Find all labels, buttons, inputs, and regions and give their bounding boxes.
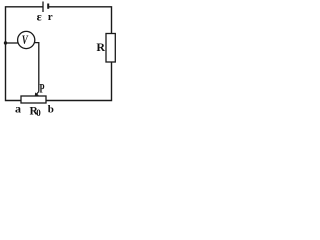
svg-text:a: a <box>15 101 21 115</box>
svg-text:R: R <box>96 40 105 54</box>
svg-text:r: r <box>48 11 53 23</box>
svg-text:0: 0 <box>36 108 41 118</box>
svg-text:ε: ε <box>37 10 42 24</box>
svg-text:b: b <box>48 104 54 116</box>
svg-text:P: P <box>40 80 45 95</box>
